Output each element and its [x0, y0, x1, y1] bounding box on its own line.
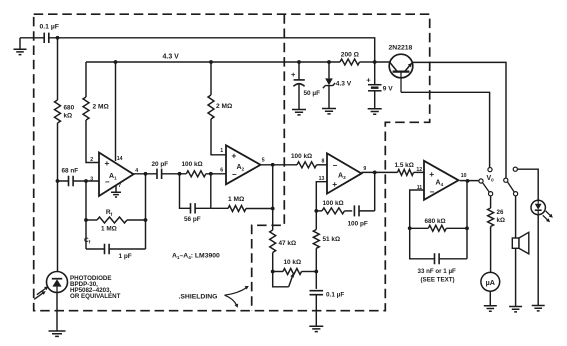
pin 1 label A2	[220, 148, 223, 154]
label 200ohm	[341, 52, 360, 59]
label + battery	[366, 75, 371, 84]
pot wiper arrow	[273, 272, 294, 287]
svg-text:kΩ: kΩ	[64, 113, 73, 120]
label 33nF	[418, 268, 457, 275]
pin 6 label A2	[220, 168, 223, 174]
switch S1 upper contact	[488, 168, 492, 172]
label see text	[421, 276, 455, 283]
label 100kohm A2in	[182, 161, 203, 168]
svg-text:100 pF: 100 pF	[348, 221, 368, 228]
ground (LED)	[532, 306, 545, 311]
op-amp A1 (LM3900)	[99, 153, 134, 197]
node (V0)	[466, 179, 470, 183]
label 4.3V zener	[336, 81, 352, 88]
svg-text:OR EQUIVALENT: OR EQUIVALENT	[70, 293, 121, 300]
label 51kohm	[323, 236, 341, 243]
wire (ground to C 0.1uF)	[20, 37, 44, 39]
switch S1 blade	[483, 183, 490, 192]
wire (collector lead)	[375, 61, 390, 63]
svg-text:Rf​: Rf​	[106, 209, 113, 217]
svg-text:680: 680	[64, 105, 75, 112]
label 100kohm A3in	[291, 153, 312, 160]
svg-text:µA: µA	[486, 278, 495, 287]
node (56pF right / A2 pin6)	[209, 172, 213, 176]
pin 10 label A4	[461, 173, 467, 179]
wire (A2 out down)	[272, 165, 274, 230]
capacitor 56pF (parallel)	[180, 174, 211, 214]
transistor Q1 2N2218	[389, 54, 413, 92]
speaker LS1	[512, 232, 529, 254]
resistor 47kohm	[270, 230, 276, 272]
label 680kohm A4	[425, 218, 446, 225]
svg-text:(SEE TEXT): (SEE TEXT)	[421, 276, 455, 283]
battery 9V	[368, 62, 382, 108]
wire (A1 out)	[134, 173, 157, 175]
svg-text:2N2218: 2N2218	[389, 45, 413, 52]
node (A3 fb node)	[314, 209, 318, 213]
svg-text:7: 7	[118, 183, 121, 189]
pin 3 label A1	[90, 177, 93, 183]
label 100pF	[348, 221, 368, 228]
label 68nF	[62, 168, 79, 175]
wire (emitter to switch S2)	[412, 62, 506, 177]
switch S2 lower contact	[514, 192, 518, 196]
resistor 1Mohm (A2 feedback)	[211, 206, 273, 212]
wire (meter to ground)	[489, 291, 491, 305]
label 1.5kohm	[395, 162, 414, 169]
wire (S2 upper to LED)	[517, 169, 538, 200]
LED D2	[531, 200, 545, 214]
ground (0.1uF)	[309, 326, 323, 331]
wire (A3 output)	[362, 171, 398, 173]
label 26kohm	[497, 209, 505, 224]
capacitor Cf 1pF (A1 feedback)	[86, 244, 146, 254]
node (1M right)	[271, 207, 275, 211]
pin 4 label A1	[135, 168, 138, 174]
svg-text:+: +	[429, 169, 434, 179]
svg-text:2 MΩ: 2 MΩ	[216, 103, 233, 110]
zener diode 4.3V	[323, 62, 335, 108]
switch S2 blade	[508, 182, 515, 192]
label 2Mohm A2	[216, 103, 233, 110]
svg-text:+: +	[105, 158, 110, 168]
LED light arrows	[543, 211, 553, 222]
label 1pF	[119, 253, 132, 260]
ground (meter)	[484, 306, 497, 311]
node (photodiode / 68nF junction)	[56, 179, 60, 183]
svg-text:4.3 V: 4.3 V	[336, 81, 352, 88]
label 2Mohm A1	[93, 104, 110, 111]
pin 13 label A3	[319, 176, 325, 182]
svg-text:100 kΩ: 100 kΩ	[291, 153, 312, 160]
label 10kohm	[284, 259, 302, 266]
svg-text:47 kΩ: 47 kΩ	[279, 240, 297, 247]
resistor 100kohm (A3 - input)	[297, 162, 327, 168]
svg-text:2: 2	[90, 157, 93, 163]
capacitor 33nF (A4 feedback)	[410, 181, 467, 264]
wire (A4 - input to feedback)	[410, 190, 424, 228]
light arrows into photodiode	[34, 287, 48, 300]
svg-text:.SHIELDING: .SHIELDING	[179, 294, 218, 301]
label Cf	[84, 237, 91, 245]
node (base/battery/200ohm)	[373, 60, 377, 64]
node (A1 output)	[144, 172, 148, 176]
capacitor 50uF (electrolytic)	[293, 62, 304, 109]
label 100kohm A3fb	[323, 200, 344, 207]
shield partition (dashed)	[252, 14, 285, 311]
label shielding	[179, 294, 218, 301]
svg-text:1 MΩ: 1 MΩ	[228, 196, 245, 203]
capacitor 0.1uF (input)	[44, 33, 49, 43]
capacitor 20pF (interstage)	[157, 169, 162, 179]
ground (battery)	[368, 109, 382, 114]
pin 12 label A4	[416, 167, 422, 173]
svg-text:200 Ω: 200 Ω	[341, 52, 360, 59]
ground (zener)	[322, 109, 336, 114]
op-amp A2 (LM3900)	[226, 145, 261, 184]
node (A3 out)	[373, 171, 377, 175]
capacitor 68nF (input coupling)	[69, 176, 74, 186]
wire (A2 output)	[261, 164, 298, 166]
node (A2 out)	[271, 163, 275, 167]
node Rf right	[144, 218, 148, 222]
node (rail / zener)	[327, 60, 331, 64]
label 9V	[383, 85, 393, 92]
svg-text:56 pF: 56 pF	[184, 216, 201, 223]
pin 2 label A1	[90, 157, 93, 163]
svg-text:2 MΩ: 2 MΩ	[93, 104, 110, 111]
label 0.1uF (A3)	[326, 292, 344, 299]
svg-text:4.3 V: 4.3 V	[163, 54, 180, 61]
wire (A3 pin13 to fb node)	[316, 182, 327, 211]
node (56pF left)	[178, 172, 182, 176]
wire 4.3V rail	[86, 61, 340, 63]
resistor 26kohm	[488, 196, 494, 272]
label 2N2218	[389, 45, 413, 52]
label V0	[487, 175, 495, 183]
label photodiode	[70, 275, 121, 300]
pin 11 label A4	[417, 185, 423, 191]
resistor 2Mohm (A1 + input bias)	[83, 62, 99, 163]
wire (top rail to transistor base node)	[49, 38, 375, 62]
svg-text:20 pF: 20 pF	[152, 161, 169, 168]
capacitor 0.1uF (to ground)	[310, 272, 324, 326]
svg-text:5: 5	[262, 158, 265, 164]
label 1Mohm A2	[228, 196, 245, 203]
node (rail / 50uF)	[297, 60, 301, 64]
ground (speaker)	[509, 307, 522, 312]
label 1Mohm Rf	[101, 226, 117, 233]
node (680k left)	[408, 226, 412, 230]
svg-text:680 kΩ: 680 kΩ	[425, 218, 446, 225]
label + 50uF	[291, 70, 296, 79]
pin 14 label A1	[117, 156, 123, 162]
switch S1 lower contact	[489, 192, 493, 196]
op-amp A3 (LM3900)	[327, 153, 362, 193]
svg-text:51 kΩ: 51 kΩ	[323, 236, 341, 243]
svg-text:9: 9	[363, 166, 366, 172]
svg-text:+: +	[332, 179, 337, 189]
pin 9 label A3	[363, 166, 366, 172]
resistor 2Mohm (A2 + input bias)	[208, 62, 226, 155]
op-amp A4 (LM3900)	[424, 161, 459, 200]
wire (LED to ground)	[537, 215, 539, 305]
ground (A1 pin 7)	[111, 186, 121, 198]
resistor 100kohm (A3 feedback)	[316, 208, 352, 214]
node Rf left	[84, 218, 88, 222]
resistor Rf 1Mohm (A1 feedback)	[86, 217, 146, 223]
shield box (dashed outline)	[34, 14, 430, 311]
svg-text:1 pF: 1 pF	[119, 253, 132, 260]
pin 8 label A3	[322, 159, 325, 165]
label 50uF	[304, 90, 321, 97]
svg-text:100 kΩ: 100 kΩ	[182, 161, 203, 168]
wire (A4 output to switch)	[460, 180, 479, 182]
capacitor 100pF (A3 feedback)	[354, 172, 374, 216]
label 47kohm	[279, 240, 297, 247]
svg-text:12: 12	[416, 167, 422, 173]
svg-text:6: 6	[220, 168, 223, 174]
svg-text:0.1 µF: 0.1 µF	[326, 292, 344, 299]
meter M1 (microammeter)	[481, 272, 500, 291]
shielding arrows	[225, 286, 249, 308]
ground (50uF)	[292, 110, 306, 115]
wire (68nF to A1 pin3)	[58, 180, 100, 182]
node (rail / A1 pin14)	[114, 60, 118, 64]
wire (base to switch S1 upper)	[401, 92, 490, 167]
resistor 680kohm (A4 feedback)	[410, 225, 467, 231]
svg-text:33 nF or 1 µF: 33 nF or 1 µF	[418, 268, 457, 275]
svg-text:A1​–A4​: LM3900: A1​–A4​: LM3900	[172, 253, 220, 261]
svg-text:−: −	[232, 170, 237, 179]
svg-text:14: 14	[117, 156, 123, 162]
switch S2 upper contact	[513, 167, 517, 171]
resistor 680kohm (photodiode bias)	[55, 38, 61, 181]
svg-text:3: 3	[90, 177, 93, 183]
wire (node to photodiode)	[57, 181, 59, 272]
ground (photodiode)	[49, 331, 66, 336]
resistor 100kohm (A2 input)	[186, 171, 226, 177]
label 56pF	[184, 216, 201, 223]
node (10k right / 51k bottom)	[314, 270, 318, 274]
wire (photodiode to ground)	[56, 293, 58, 331]
pin 5 label A2	[262, 158, 265, 164]
label 680kohm	[64, 105, 75, 120]
resistor 51kohm	[313, 211, 319, 272]
svg-text:9 V: 9 V	[383, 85, 393, 92]
label Rf	[106, 209, 113, 217]
svg-text:+: +	[366, 75, 371, 84]
potentiometer 10kohm	[273, 269, 317, 275]
switch S1 common contact	[479, 179, 483, 183]
pin 7 label A1	[118, 183, 121, 189]
label 4.3V rail	[163, 54, 180, 61]
wire (200ohm to base node)	[360, 61, 375, 63]
ground (top left)	[14, 38, 27, 55]
svg-text:1: 1	[220, 148, 223, 154]
svg-text:+: +	[232, 150, 237, 160]
svg-text:−: −	[430, 188, 435, 197]
wire (20pF to 100k)	[162, 173, 187, 175]
svg-text:100 kΩ: 100 kΩ	[323, 200, 344, 207]
switch S2 common contact	[504, 178, 508, 182]
label 20pF	[152, 161, 169, 168]
svg-text:26: 26	[497, 209, 504, 216]
resistor 200ohm	[340, 59, 360, 65]
wire (S2 lower to speaker/ground)	[515, 196, 517, 306]
photodiode D1	[47, 272, 68, 293]
svg-text:−: −	[333, 161, 338, 170]
svg-text:1.5 kΩ: 1.5 kΩ	[395, 162, 414, 169]
svg-text:0.1 µF: 0.1 µF	[40, 24, 59, 31]
node (rail / 2M A2)	[209, 60, 213, 64]
wire (pin3 node down to Rf/Cf)	[85, 181, 87, 249]
node (10k left)	[271, 270, 275, 274]
resistor 1.5kohm (A4 input)	[398, 169, 425, 175]
label 0.1uF	[40, 24, 59, 31]
svg-text:50 µF: 50 µF	[304, 90, 321, 97]
svg-text:+: +	[291, 70, 296, 79]
wire (A1 out node down to feedback)	[145, 174, 147, 249]
node (A1 pin3 / feedback)	[84, 179, 88, 183]
node (0.1uF / 680k junction)	[56, 36, 60, 40]
svg-text:kΩ: kΩ	[497, 217, 505, 224]
svg-text:8: 8	[322, 159, 325, 165]
svg-text:1 MΩ: 1 MΩ	[101, 226, 117, 233]
node (680k right)	[465, 226, 469, 230]
svg-text:68 nF: 68 nF	[62, 168, 79, 175]
svg-text:10: 10	[461, 173, 467, 179]
label A1-A4 LM3900	[172, 253, 220, 261]
svg-text:10 kΩ: 10 kΩ	[284, 259, 302, 266]
wire (rail to A1 pin 14)	[115, 62, 117, 161]
